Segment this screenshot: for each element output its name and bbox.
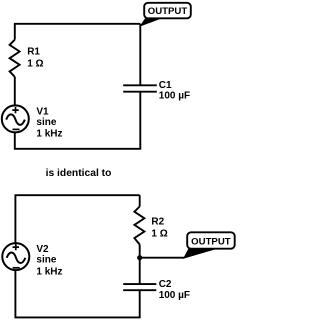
svg-text:100 µF: 100 µF (159, 290, 190, 301)
svg-text:OUTPUT: OUTPUT (148, 6, 188, 17)
wire: circuit 2 left branch from V2 bottom to bottom rail (14, 270, 16, 318)
svg-text:sine: sine (36, 254, 56, 265)
wire: circuit 2 junction to C2 top plate (139, 258, 141, 284)
wire: circuit 1 top rail (14, 23, 140, 25)
wire: circuit 2 top rail (15, 194, 140, 196)
voltage source V2 (2, 243, 62, 277)
wire: circuit 1 bottom rail (14, 148, 141, 150)
svg-text:1 kHz: 1 kHz (36, 266, 62, 277)
output flag OUTPUT (circuit 1) (140, 3, 190, 26)
svg-text:is identical to: is identical to (46, 168, 112, 179)
resistor R2 (134, 207, 167, 245)
svg-text:1 kHz: 1 kHz (36, 129, 62, 140)
wire: circuit 2 left branch from top rail to V2 top (14, 195, 16, 244)
svg-text:R1: R1 (27, 47, 40, 58)
resistor R1 (10, 40, 44, 77)
svg-text:1 Ω: 1 Ω (27, 59, 43, 70)
svg-text:R2: R2 (151, 217, 164, 228)
wire: circuit 1 right branch from C1 bottom plate to bottom rail (139, 92, 141, 149)
output flag OUTPUT (circuit 2) (184, 232, 235, 258)
voltage source V1 (2, 105, 63, 139)
wire: circuit 2 right branch from top rail to R2 top (139, 195, 141, 206)
wire: circuit 2 right branch from C2 bottom plate to bottom rail (139, 290, 141, 317)
wire: circuit 1 right branch from top rail to C1 top plate (139, 24, 141, 86)
svg-text:OUTPUT: OUTPUT (191, 236, 231, 247)
svg-text:C1: C1 (159, 80, 172, 91)
wire: circuit 1 left branch from R1 top to top rail (14, 24, 16, 40)
wire: junction to OUTPUT tag tail (140, 257, 184, 259)
wire: circuit 1 left branch from R1 bottom to V1 top (14, 77, 16, 106)
capacitor C1 (123, 80, 190, 102)
svg-text:1 Ω: 1 Ω (151, 228, 167, 239)
svg-text:sine: sine (36, 117, 56, 128)
wire: circuit 1 left branch from V1 bottom to bottom rail (14, 132, 16, 149)
capacitor C2 (123, 279, 190, 301)
junction node dot (137, 255, 142, 260)
svg-text:C2: C2 (159, 279, 172, 290)
svg-text:100 µF: 100 µF (159, 91, 190, 102)
wire: circuit 2 right branch from R2 bottom to junction (139, 245, 141, 258)
wire: circuit 2 bottom rail (15, 316, 141, 318)
